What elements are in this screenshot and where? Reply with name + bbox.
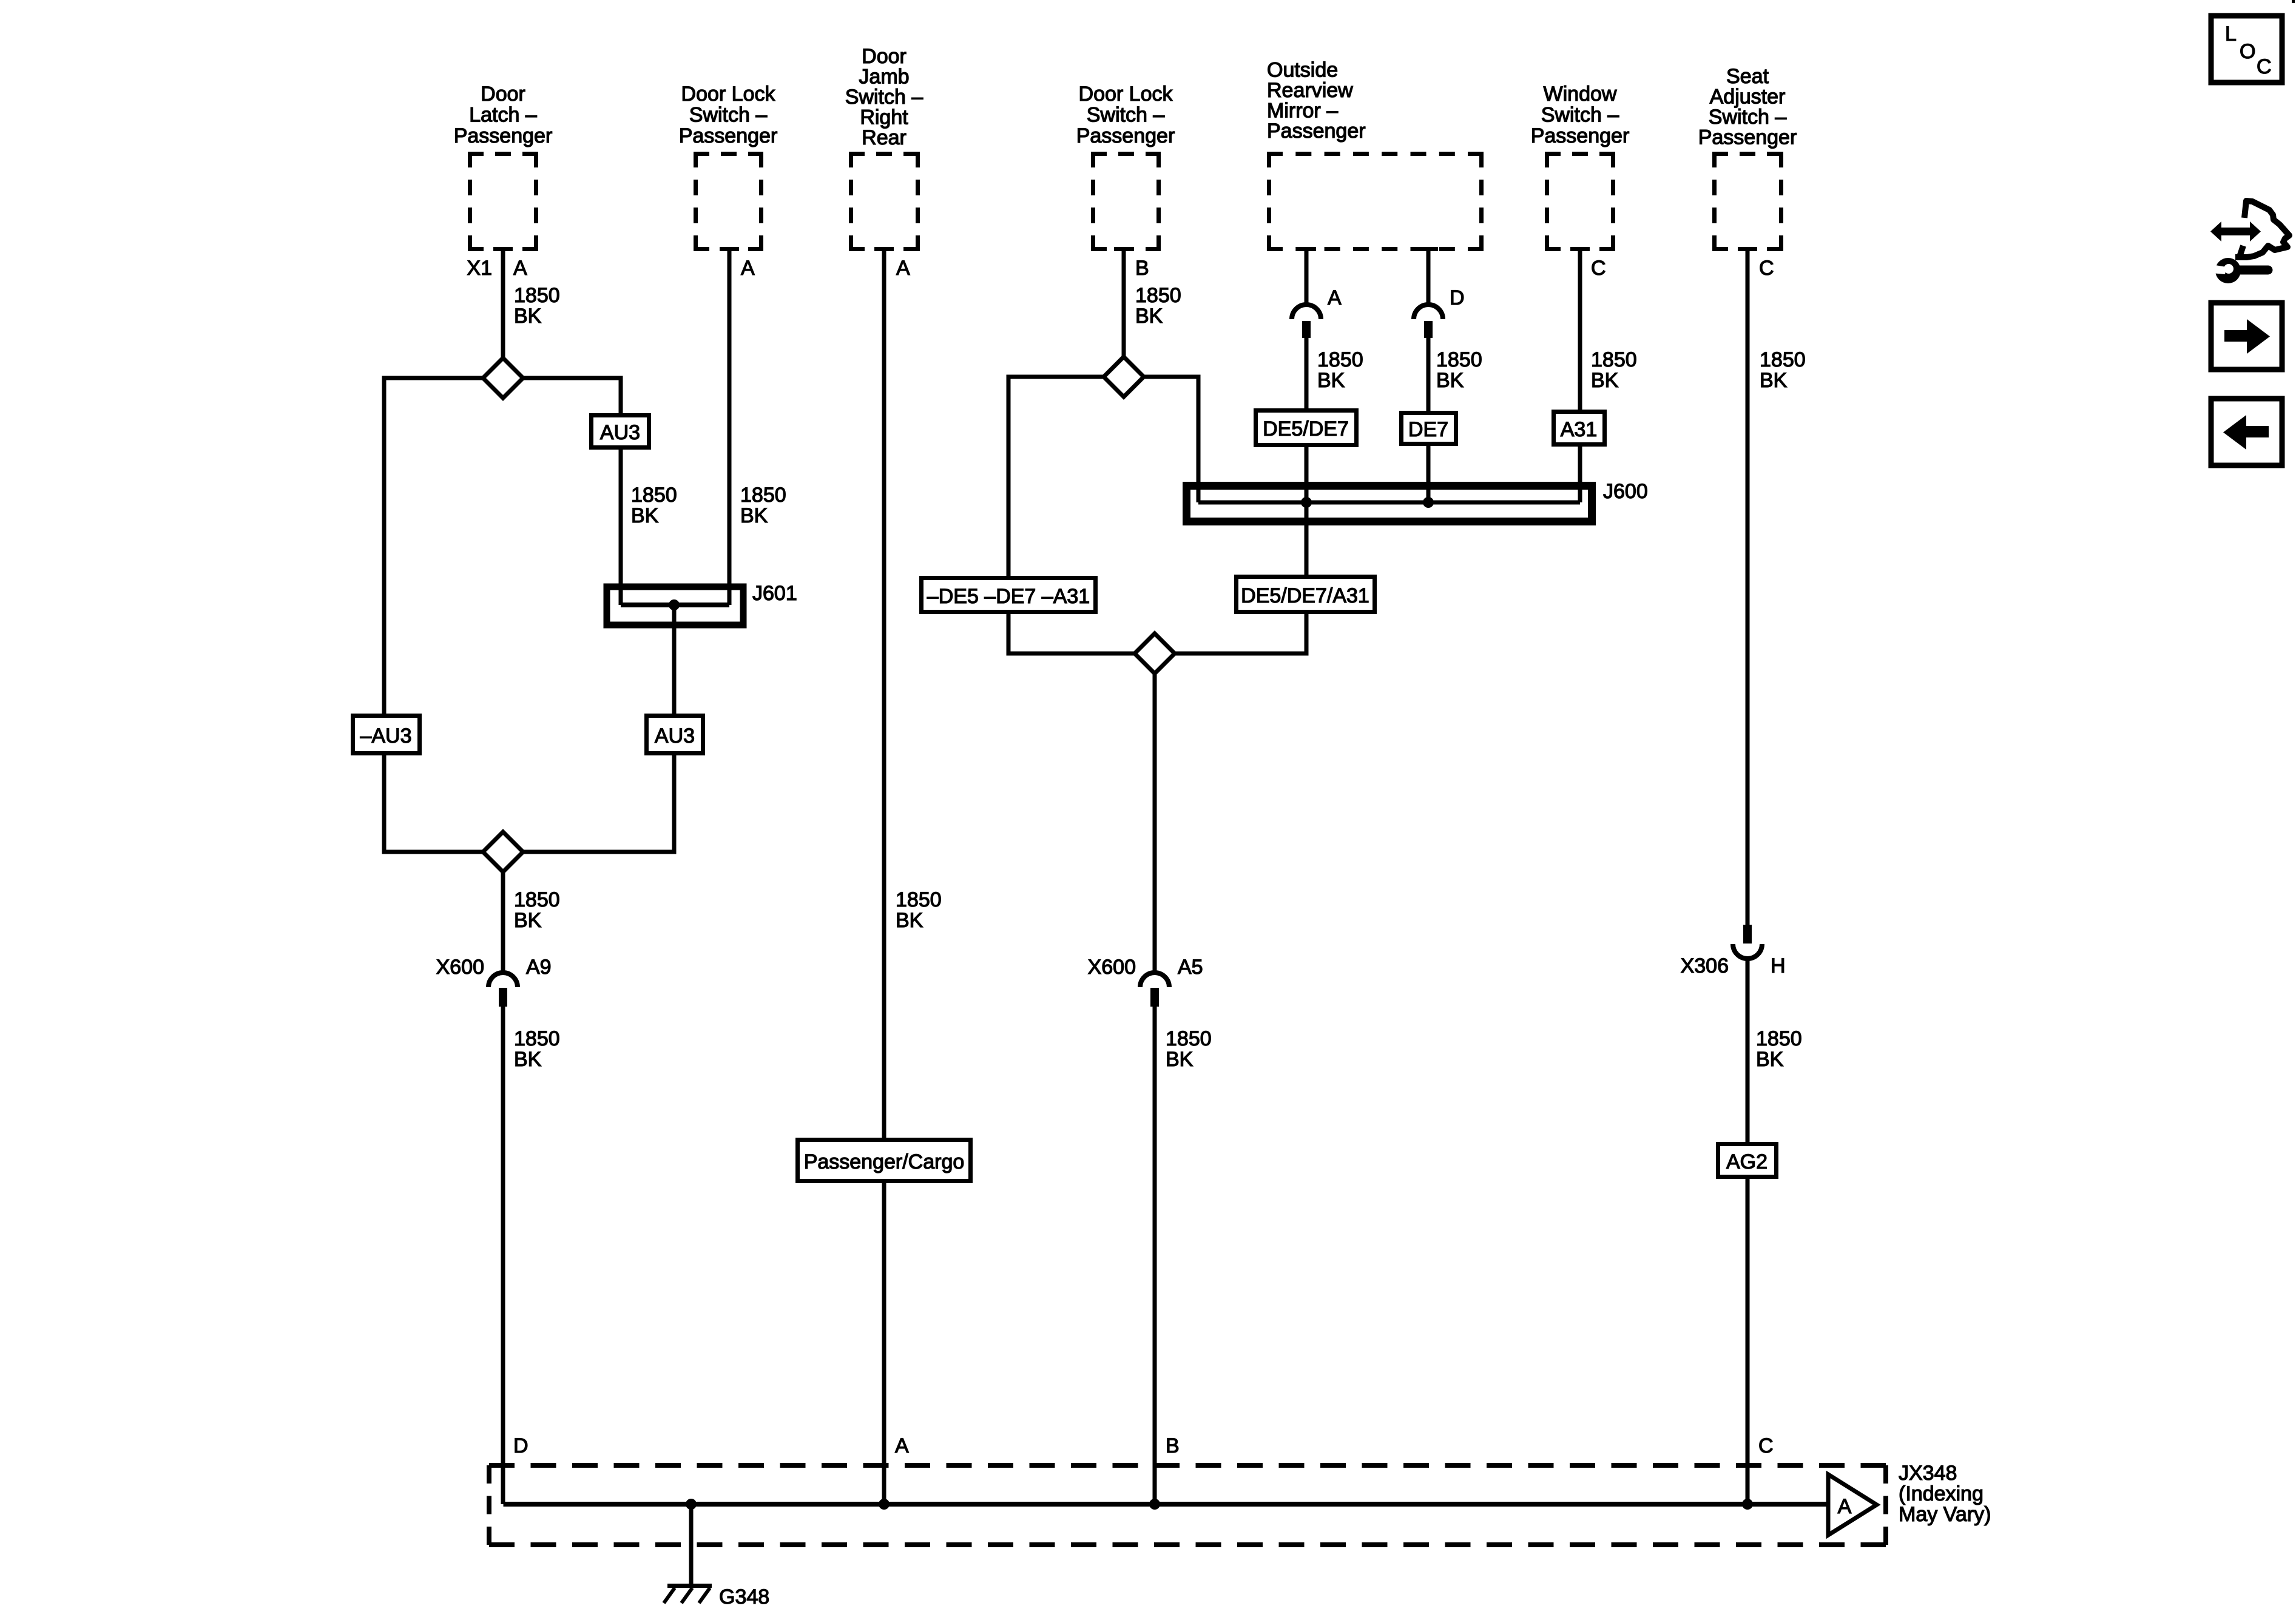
icon: wrench [2215,258,2241,283]
text label Door Jamb Switch - Right Rear [845,45,923,149]
svg-text:Passenger: Passenger [679,124,778,147]
svg-text:Mirror –: Mirror – [1267,100,1338,123]
svg-text:Outside: Outside [1267,59,1338,82]
svg-text:X1: X1 [467,257,492,280]
svg-text:A9: A9 [526,956,552,979]
svg-text:Passenger: Passenger [1531,124,1630,147]
label box -AU3 [353,716,420,754]
icon: component outline [2235,201,2289,257]
svg-text:O: O [2240,40,2255,63]
component box Window Switch - Passenger (dashed) [1545,152,1615,251]
svg-text:BK: BK [1760,369,1788,392]
svg-text:DE7: DE7 [1408,418,1448,441]
component box Seat Adjuster Switch - Passenger (dashed) [1712,152,1783,251]
svg-text:X600: X600 [1088,956,1136,979]
wire from Mirror pin A to its connector [1305,249,1309,305]
text label Outside Rearview Mirror - Passenger [1267,59,1366,143]
page mark top right [2292,0,2295,3]
svg-text:Door: Door [481,83,525,106]
svg-text:Seat: Seat [1726,65,1769,88]
J600 bus bar [1198,501,1580,505]
svg-text:1850: 1850 [1436,348,1482,371]
wire from Mirror pin D connector through DE7 box to J600 bus [1427,336,1431,502]
svg-text:Door Lock: Door Lock [681,83,776,106]
splice diamond lower left [483,832,523,872]
svg-text:1850: 1850 [1756,1027,1802,1050]
icon: double arrow [2210,221,2261,241]
pin stub Mirror D [1419,247,1438,251]
svg-text:AG2: AG2 [1726,1150,1768,1173]
svg-text:Jamb: Jamb [859,66,909,89]
svg-text:1850: 1850 [1591,348,1637,371]
wire from lower diamond down to X600 A9 [501,871,505,974]
svg-text:1850: 1850 [896,888,942,911]
svg-text:BK: BK [740,504,768,527]
J600 splice pack rectangle [1187,486,1592,522]
svg-text:DE5/DE7/A31: DE5/DE7/A31 [1241,584,1369,607]
svg-text:Passenger/Cargo: Passenger/Cargo [804,1150,965,1173]
svg-text:BK: BK [1166,1048,1194,1071]
pin stub Seat Adjuster C [1738,247,1757,251]
svg-text:C: C [1759,257,1774,280]
J601 splice pack rectangle [607,587,743,625]
label box A31 [1554,412,1605,445]
svg-text:Switch –: Switch – [689,104,768,127]
component box Door Jamb Switch - Right Rear (dashed) [849,152,920,251]
svg-text:(Indexing: (Indexing [1899,1482,1984,1505]
svg-text:A31: A31 [1561,418,1598,441]
in-line connector X306 H (terminal + arc) [1743,925,1752,944]
junction dot J600 at DE5/DE7 wire [1301,497,1312,508]
text label Door Lock Switch - Passenger [679,83,778,147]
svg-text:BK: BK [1756,1048,1784,1071]
label box DE7 [1402,413,1456,444]
svg-text:1850: 1850 [631,484,677,507]
svg-text:1850: 1850 [1135,284,1181,307]
wire from middle diamond down to X600 A5 [1153,673,1157,974]
in-line connector Mirror pin D (arc + terminal) [1414,305,1443,319]
svg-text:Passenger: Passenger [1267,120,1366,143]
svg-text:AU3: AU3 [600,421,640,444]
svg-text:Right: Right [860,106,908,129]
ground tap wire down to G348 [689,1504,694,1585]
svg-text:AU3: AU3 [655,724,695,748]
connector index triangle A [1828,1474,1877,1535]
svg-text:A: A [513,257,527,280]
svg-text:A: A [741,257,755,280]
svg-text:Latch –: Latch – [469,104,537,127]
svg-text:1850: 1850 [1760,348,1806,371]
splice diamond under Door Latch [483,358,523,398]
wire from Window Switch pin C through A31 box to J600 bus [1578,249,1582,502]
in-line connector Mirror pin A (arc + terminal) [1292,305,1321,319]
junction dot in J601 [669,599,680,610]
label box AG2 [1718,1144,1777,1177]
svg-text:May Vary): May Vary) [1899,1503,1991,1526]
J601 bus bar [621,603,729,607]
label box AU3 lower [647,716,703,754]
wire from X306 connector through AG2 down to ground bus [1746,957,1750,1504]
junction dot J600 at DE7 wire [1423,497,1434,508]
label box DE5/DE7 [1256,411,1357,445]
component box Door Latch - Passenger (dashed) [468,152,538,251]
component box Door Lock Switch - Passenger B (dashed) [1091,152,1161,251]
ground bus wire inside JX348 [504,1502,1829,1504]
svg-text:BK: BK [1135,305,1163,328]
wire from Mirror pin D to its connector [1427,249,1431,305]
wire from Door Jamb Switch pin A down to ground bus [882,249,886,1504]
pin stub Door Latch A [493,247,513,251]
svg-text:1850: 1850 [514,888,560,911]
svg-text:Switch –: Switch – [845,86,923,109]
wire from Mirror pin A connector through DE5/DE7, J600, DE5/DE7/A31 to middle diamond [1175,336,1306,653]
splice diamond middle [1135,633,1175,673]
text label Seat Adjuster Switch - Passenger [1698,65,1797,149]
wire right branch from B diamond down into J600 [1143,377,1198,502]
svg-text:1850: 1850 [514,1027,560,1050]
wire right branch from diamond through AU3 down into J601 [522,378,621,605]
wire from Door Lock Switch pin B down to splice diamond [1122,249,1126,357]
svg-text:X306: X306 [1681,954,1729,977]
svg-text:C: C [2257,55,2272,78]
svg-text:D: D [1450,286,1465,309]
ground symbol G348 [664,1586,712,1604]
svg-text:1850: 1850 [514,284,560,307]
wire from X600 A9 down to ground bus [501,1006,505,1502]
svg-text:C: C [1758,1434,1774,1457]
pin stub Door Jamb Switch A [874,247,894,251]
LOC legend box [2211,16,2282,83]
text label Door Latch - Passenger [454,83,553,147]
junction dot A5 wire at bus [1149,1499,1160,1510]
svg-text:A: A [895,1434,909,1457]
in-line connector X600 A5 (arc + terminal) [1140,973,1169,987]
svg-text:–AU3: –AU3 [360,724,411,748]
label box -DE5 -DE7 -A31 [922,578,1096,612]
svg-text:J600: J600 [1603,480,1648,503]
svg-text:JX348: JX348 [1899,1462,1957,1485]
label box DE5/DE7/A31 [1237,577,1375,612]
svg-text:BK: BK [631,504,659,527]
component box Door Lock Switch - Passenger (dashed) [694,152,763,251]
svg-text:Window: Window [1544,83,1617,106]
svg-text:G348: G348 [719,1585,769,1609]
svg-text:BK: BK [514,1048,542,1071]
svg-text:Door Lock: Door Lock [1079,83,1173,106]
wire from J601 dot through AU3 down to lower diamond [522,605,674,852]
icon: bent stub [2240,246,2243,257]
wire from X600 A5 down to ground bus [1153,1006,1157,1504]
wire from Door Lock Switch pin A down into J601 [728,249,732,605]
pin stub Window Switch C [1570,247,1590,251]
junction dot seat wire at bus [1742,1499,1753,1510]
svg-text:Switch –: Switch – [1087,104,1165,127]
svg-text:Passenger: Passenger [1698,126,1797,149]
svg-text:D: D [513,1434,528,1457]
svg-text:Rearview: Rearview [1267,79,1353,102]
svg-text:BK: BK [1436,369,1464,392]
wire from Seat Adjuster pin C down to X306 connector [1746,249,1750,926]
text label Door Lock Switch - Passenger B [1076,83,1175,147]
svg-text:Passenger: Passenger [1076,124,1175,147]
label box AU3 upper [592,416,649,448]
svg-text:BK: BK [896,909,923,932]
svg-text:BK: BK [1591,369,1619,392]
svg-text:Rear: Rear [862,126,907,149]
pin stub Door Lock Switch A [720,247,739,251]
svg-text:Switch –: Switch – [1709,106,1787,129]
nav box: arrow right [2211,303,2282,370]
svg-text:BK: BK [514,909,542,932]
svg-text:DE5/DE7: DE5/DE7 [1263,417,1349,441]
junction dot door jamb at bus [879,1499,890,1510]
svg-text:Passenger: Passenger [454,124,553,147]
component box Outside Rearview Mirror - Passenger (dashed) [1267,152,1484,251]
pin stub Mirror A [1297,247,1316,251]
svg-text:H: H [1771,954,1786,977]
svg-text:Switch –: Switch – [1541,104,1619,127]
svg-text:A: A [1838,1495,1852,1518]
svg-text:L: L [2225,22,2237,46]
svg-text:1850: 1850 [1317,348,1363,371]
nav box: arrow left [2211,399,2282,465]
svg-text:X600: X600 [436,956,484,979]
svg-text:A5: A5 [1178,956,1203,979]
svg-text:BK: BK [1317,369,1345,392]
svg-text:B: B [1135,257,1149,280]
label box Passenger/Cargo [798,1140,971,1181]
svg-text:A: A [1328,286,1342,309]
junction dot ground tap [686,1499,697,1510]
JX348 connector dashed box [489,1465,1886,1545]
svg-text:A: A [896,257,910,280]
svg-text:Door: Door [862,45,907,68]
wire left branch from diamond through -AU3 down to lower diamond [384,378,484,852]
svg-text:Adjuster: Adjuster [1710,86,1786,109]
svg-text:J601: J601 [752,582,797,605]
svg-text:1850: 1850 [740,484,786,507]
pin stub Door Lock Switch B [1114,247,1133,251]
svg-text:1850: 1850 [1166,1027,1212,1050]
svg-text:C: C [1591,257,1606,280]
in-line connector X600 A9 (arc + terminal) [488,973,518,987]
svg-text:BK: BK [514,305,542,328]
text label Window Switch - Passenger [1531,83,1630,147]
splice diamond under Door Lock Switch B [1104,357,1144,397]
wire left branch from B diamond through -DE5-DE7-A31 to middle diamond [1008,377,1135,653]
svg-text:–DE5 –DE7 –A31: –DE5 –DE7 –A31 [927,585,1090,608]
svg-text:B: B [1166,1434,1180,1457]
wire from Door Latch pin A down to splice diamond [501,249,505,358]
